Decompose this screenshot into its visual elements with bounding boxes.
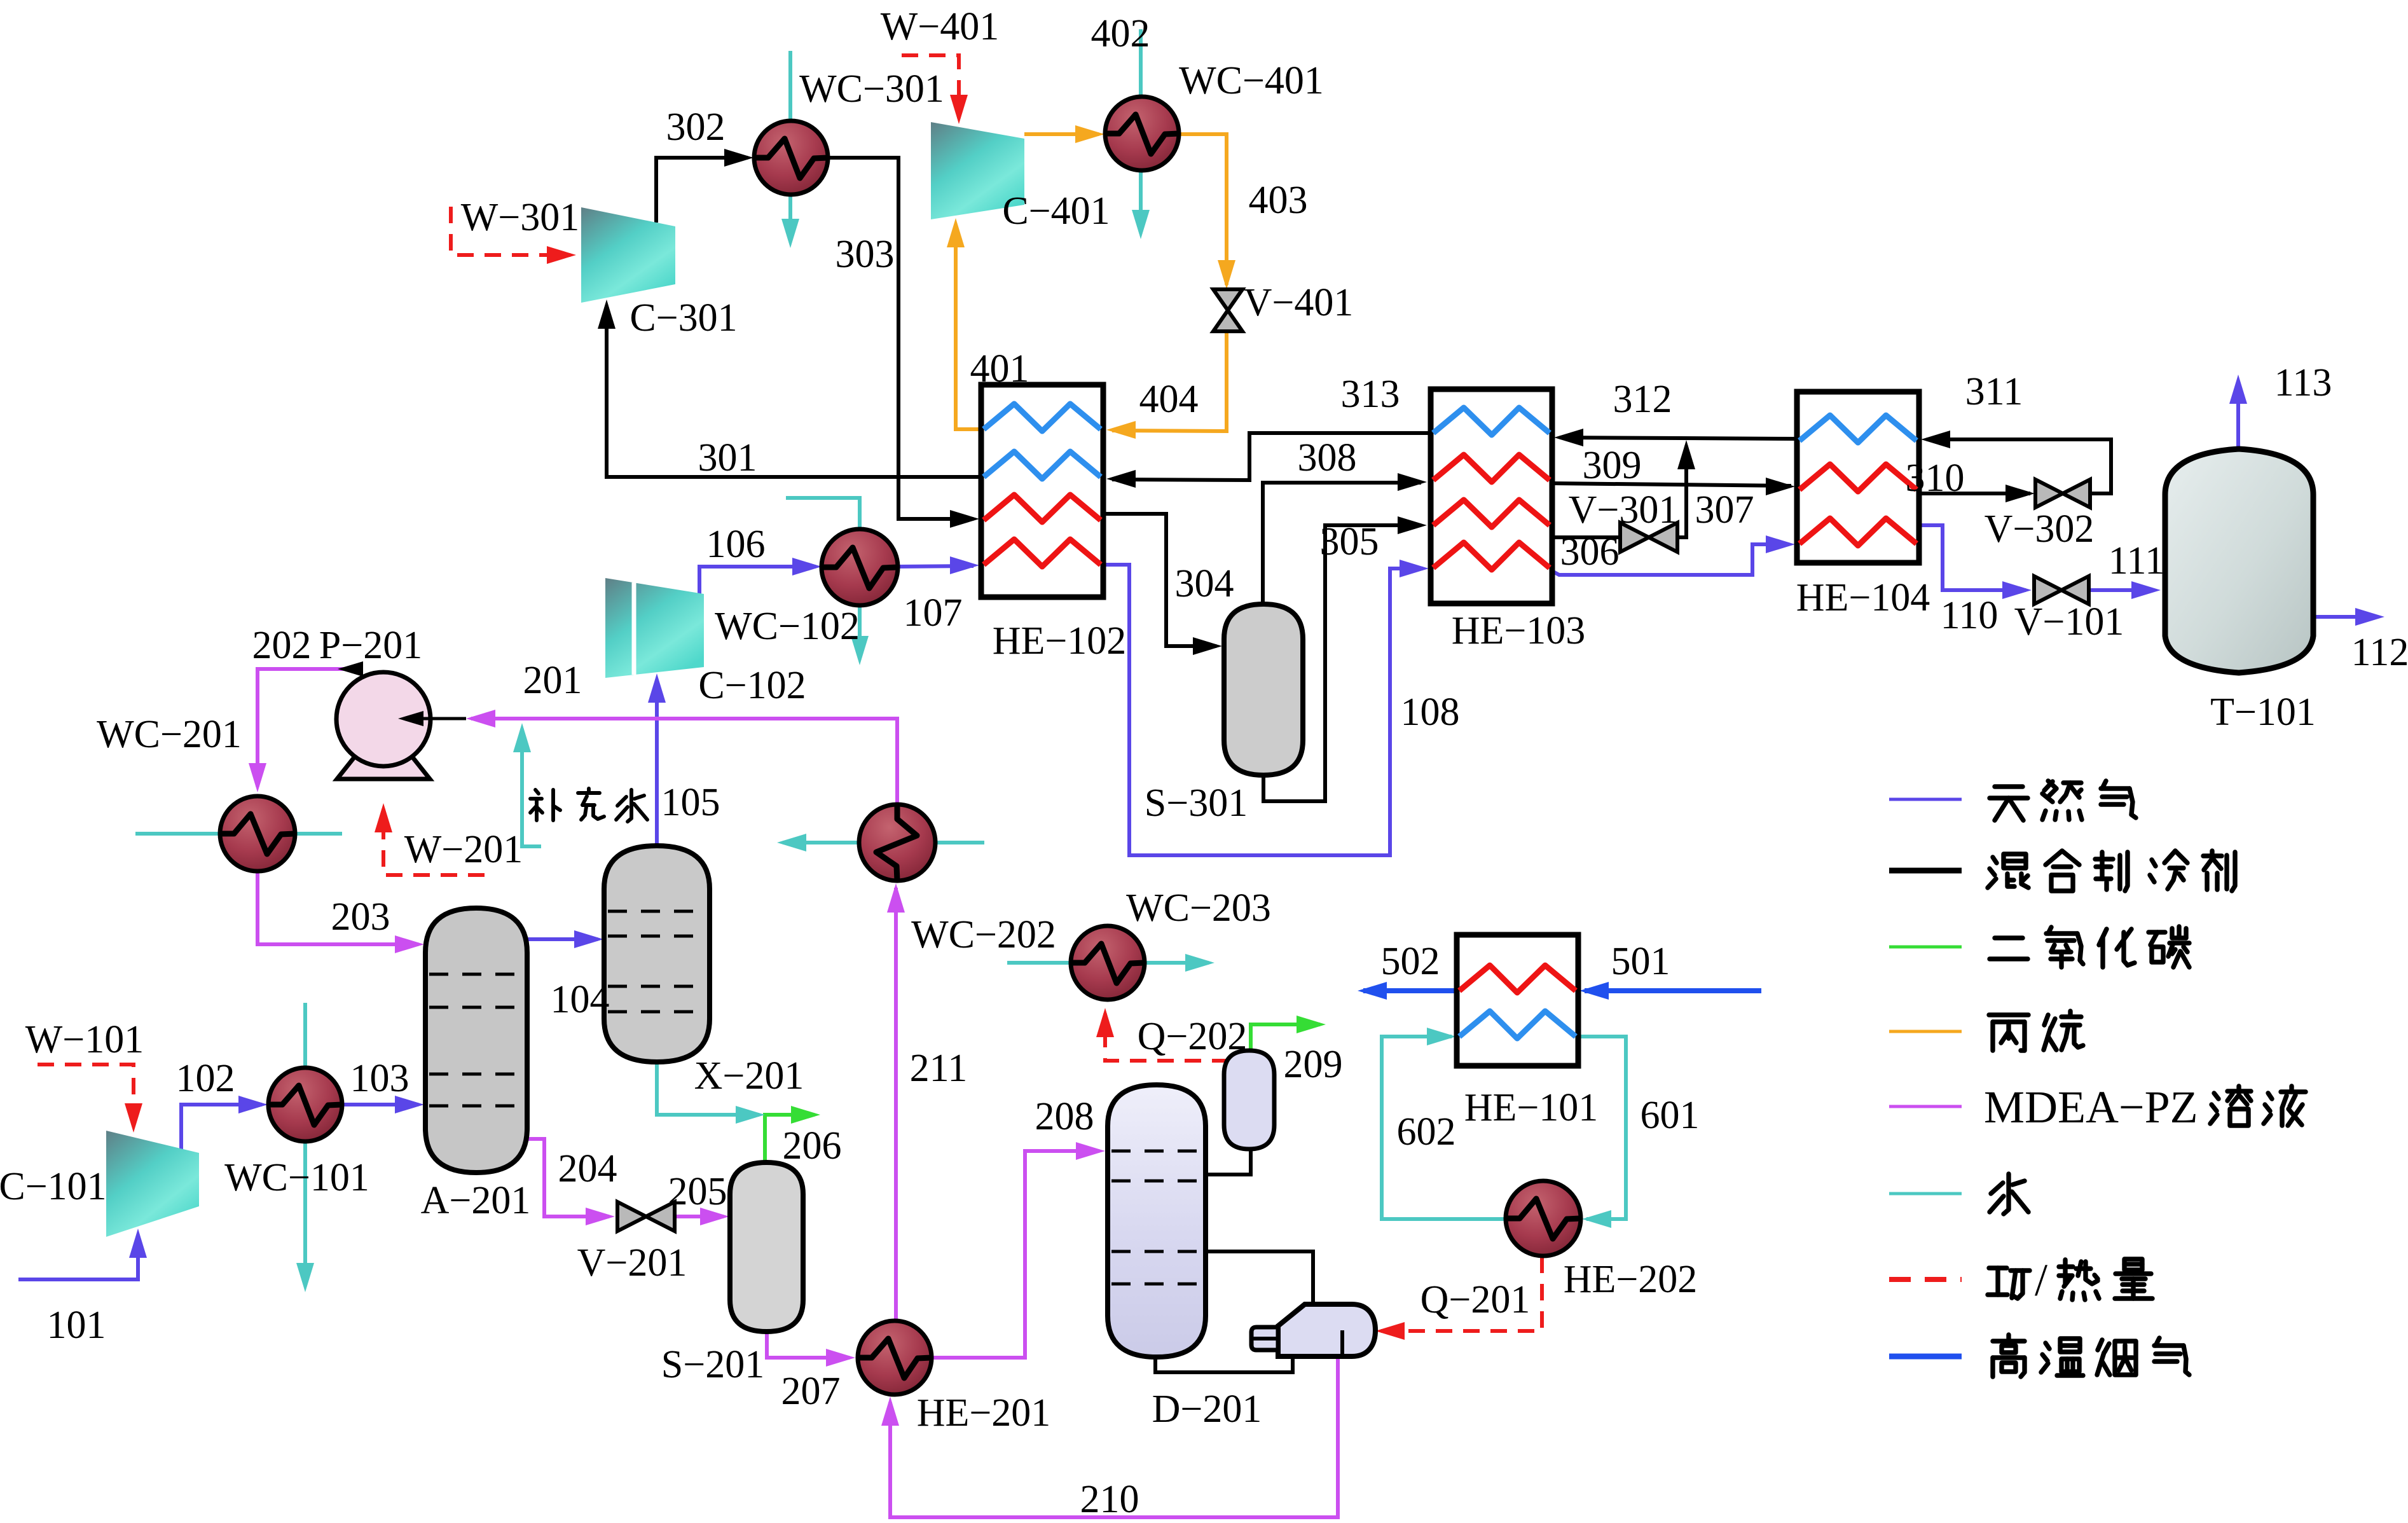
wire 311 V-302 to HE-104 blue row — [1927, 439, 2111, 493]
svg-text:D−201: D−201 — [1152, 1388, 1262, 1431]
legend natural gas line — [1889, 798, 1962, 801]
wire 109 HE-103 to HE-104 — [1551, 544, 1789, 575]
legend mixed refrigerant line — [1889, 868, 1962, 874]
arrow 113 — [2229, 375, 2247, 404]
wire water X-201 bottom — [657, 1062, 759, 1115]
wire 204 A-201 to V-201 — [525, 1139, 609, 1216]
svg-text:101: 101 — [47, 1304, 106, 1347]
svg-text:V−201: V−201 — [577, 1241, 687, 1285]
svg-text:311: 311 — [1965, 370, 2023, 413]
svg-text:WC−301: WC−301 — [799, 67, 944, 111]
svg-text:110: 110 — [1941, 594, 1999, 637]
arrow 201 magenta — [466, 710, 495, 727]
svg-text:204: 204 — [558, 1147, 617, 1190]
wire 102 C-101 to WC-101 — [181, 1105, 262, 1150]
svg-text:W−101: W−101 — [25, 1018, 144, 1061]
svg-text:210: 210 — [1080, 1478, 1139, 1521]
arrow 208 into D-201 — [1076, 1142, 1105, 1160]
arrow water WC-401 — [1132, 210, 1150, 239]
arrow 304 into S-301 — [1193, 637, 1222, 655]
svg-text:111: 111 — [2109, 539, 2164, 582]
arrow water WC-102 — [851, 636, 869, 665]
wire 110 HE-104 to V-101 — [1916, 525, 2026, 590]
arrow 307 joins 312 — [1677, 440, 1695, 469]
svg-text:402: 402 — [1091, 12, 1150, 55]
svg-text:601: 601 — [1641, 1094, 1700, 1137]
wire 112 T-101 liquid out — [2313, 615, 2378, 619]
valve V-302 — [2035, 479, 2063, 507]
arrow 202 at pump outlet — [338, 661, 363, 677]
arrow 103 into A-201 — [395, 1096, 424, 1113]
arrow 101 into C-101 — [129, 1229, 147, 1258]
svg-text:P−201: P−201 — [319, 624, 422, 667]
legend propane line — [1889, 1030, 1962, 1033]
wire D-201 vapor to reboiler — [1206, 1251, 1313, 1307]
cooler WC-401 — [1105, 97, 1179, 170]
arrow CO2 209 — [1297, 1016, 1326, 1033]
arrow 313 into HE-102 — [1106, 470, 1136, 488]
wire 209 drum to D-201 — [1206, 1149, 1251, 1175]
svg-text:207: 207 — [781, 1370, 841, 1413]
svg-text:WC−202: WC−202 — [911, 913, 1056, 956]
wire 210 D-201 reboiler to HE-201 — [890, 1356, 1338, 1517]
reflux drum 209 — [1224, 1051, 1274, 1149]
arrow 310 into V-302 — [2006, 485, 2035, 502]
svg-text:502: 502 — [1381, 940, 1440, 983]
arrow 201 into P-201 — [398, 711, 423, 726]
legend text 水 — [1990, 1174, 2028, 1214]
label makeup-water 补充水 — [530, 790, 560, 820]
svg-text:C−102: C−102 — [698, 664, 806, 707]
svg-text:W−201: W−201 — [404, 828, 523, 871]
wire Q-202 heat from 209 to WC-203 — [1105, 1014, 1228, 1061]
arrow 107 into HE-102 — [950, 556, 979, 574]
svg-text:313: 313 — [1341, 373, 1400, 416]
legend text 天然气 — [1990, 787, 2028, 820]
legend text 功/热量 — [1988, 1268, 2030, 1299]
svg-text:303: 303 — [836, 233, 895, 276]
svg-text:205: 205 — [668, 1170, 727, 1213]
svg-text:MDEA−PZ: MDEA−PZ — [1984, 1082, 2198, 1133]
svg-text:208: 208 — [1035, 1095, 1094, 1138]
arrow 302 into WC-301 — [724, 149, 753, 167]
arrow 110 into V-101 — [2002, 581, 2032, 599]
svg-text:WC−401: WC−401 — [1179, 59, 1324, 102]
svg-text:304: 304 — [1175, 562, 1234, 605]
wire 113 T-101 vapor out — [2236, 382, 2240, 448]
wire Q-202 CO2 vent from 209 — [1251, 1024, 1320, 1049]
svg-text:305: 305 — [1320, 520, 1379, 563]
wire 101 natural gas feed — [18, 1235, 138, 1279]
legend water line — [1889, 1192, 1962, 1196]
svg-text:308: 308 — [1298, 436, 1357, 479]
arrow 112 — [2355, 608, 2384, 626]
arrow W-101 — [125, 1103, 142, 1133]
valve V-201 — [617, 1202, 646, 1231]
wire cooling water WC-401 — [1139, 29, 1143, 233]
arrow 206 — [791, 1106, 820, 1124]
svg-text:602: 602 — [1397, 1110, 1456, 1154]
svg-text:HE−103: HE−103 — [1452, 609, 1586, 652]
compressor C-301 — [581, 207, 675, 303]
svg-text:V−301: V−301 — [1569, 488, 1679, 532]
legend text 混合制冷剂 — [1988, 854, 2028, 888]
heat exchanger HE-103 — [1431, 389, 1552, 603]
arrow 102 into WC-101 — [238, 1096, 268, 1113]
arrow 111 into T-101 — [2131, 581, 2161, 599]
svg-text:S−201: S−201 — [661, 1343, 764, 1386]
svg-text:203: 203 — [331, 895, 390, 939]
arrow Q-201 — [1375, 1322, 1405, 1340]
wire 205 V-201 to S-201 — [675, 1215, 724, 1218]
wire 106 C-102 to WC-102 — [699, 567, 816, 594]
arrow water X-201 — [736, 1106, 765, 1124]
wire W-201 work to P-201 — [383, 809, 485, 875]
heater HE-201 — [858, 1321, 932, 1395]
svg-text:202: 202 — [252, 624, 312, 667]
svg-text:113: 113 — [2274, 361, 2332, 404]
arrow water WC-101 — [296, 1263, 314, 1292]
arrow 210 into HE-201 — [881, 1396, 899, 1426]
LNG tank T-101 — [2165, 449, 2313, 673]
wire 203 WC-201 to A-201 — [258, 871, 418, 944]
arrow 104 into X-201 — [574, 930, 603, 948]
legend work/heat line — [1889, 1277, 1962, 1282]
cooler WC-102 — [822, 529, 898, 605]
arrow 312 into HE-103 — [1554, 429, 1583, 446]
wire 201 black tail into pump — [403, 717, 466, 720]
svg-text:301: 301 — [698, 436, 757, 479]
svg-text:310: 310 — [1906, 457, 1965, 500]
wire 601 HE-101 to HE-202 — [1578, 1037, 1626, 1219]
arrow 308 into HE-103 — [1398, 473, 1427, 491]
legend flue gas line — [1889, 1354, 1962, 1360]
wire 402 C-401 to WC-401 — [1024, 132, 1099, 136]
svg-text:/: / — [2035, 1255, 2047, 1306]
svg-text:W−301: W−301 — [461, 196, 579, 239]
cooler WC-101 — [268, 1068, 342, 1141]
wire W-301 work to C-301 — [451, 207, 570, 255]
cooler WC-202 — [859, 804, 935, 881]
svg-text:Q−202: Q−202 — [1138, 1015, 1248, 1058]
wire D-201 bottom to reboiler — [1155, 1356, 1293, 1372]
wire cooling water WC-101 — [303, 1003, 307, 1286]
svg-text:WC−102: WC−102 — [715, 605, 860, 648]
svg-text:106: 106 — [706, 523, 766, 566]
svg-text:HE−202: HE−202 — [1564, 1258, 1698, 1301]
svg-text:309: 309 — [1583, 444, 1642, 487]
wire 108 HE-102 to HE-103 — [1102, 565, 1423, 855]
wire 310 HE-104 to V-302 — [1919, 492, 2030, 495]
wire 104 A-201 to X-201 — [527, 937, 598, 941]
svg-text:C−301: C−301 — [630, 296, 737, 340]
wire 403 WC-401 to V-401 — [1179, 134, 1227, 285]
svg-text:WC−101: WC−101 — [224, 1156, 369, 1199]
legend text 二氧化碳 — [1990, 938, 2028, 959]
arrow Q-202 — [1096, 1008, 1114, 1037]
arrow water WC-203 — [1185, 954, 1214, 972]
svg-text:102: 102 — [176, 1057, 235, 1100]
arrow 105 into C-102 — [648, 673, 666, 703]
arrow water WC-202 — [777, 834, 806, 851]
arrow 309 into HE-104 — [1766, 478, 1795, 495]
dryer X-201 — [604, 846, 710, 1062]
wire 202 P-201 to WC-201 — [258, 669, 356, 787]
heater HE-202 — [1506, 1181, 1581, 1256]
legend text 丙烷 — [1989, 1015, 2028, 1051]
arrow 602 into HE-101 — [1427, 1028, 1456, 1045]
cooler WC-301 — [754, 121, 828, 195]
legend CO2 line — [1889, 946, 1962, 949]
svg-text:302: 302 — [666, 106, 726, 149]
wire 306 HE-103 to V-301 — [1552, 535, 1621, 539]
wire 207 S-201 to HE-201 — [767, 1332, 850, 1358]
arrow 301 into C-301 — [598, 300, 616, 329]
arrow water WC-301 — [781, 219, 799, 248]
absorber A-201 — [425, 908, 527, 1173]
wire cooling water WC-203 — [1007, 961, 1209, 965]
pump P-201 — [337, 751, 430, 779]
wire cooling water WC-301 — [788, 51, 792, 242]
arrow 303 into HE-102 — [950, 510, 979, 528]
svg-text:A−201: A−201 — [421, 1179, 531, 1222]
svg-text:201: 201 — [523, 659, 582, 702]
wire makeup water — [522, 729, 541, 846]
wire 105 X-201 to C-102 — [655, 680, 659, 846]
svg-text:V−401: V−401 — [1244, 281, 1354, 324]
wire 305 S-301 bottom to HE-103 — [1263, 525, 1421, 801]
svg-text:HE−201: HE−201 — [917, 1391, 1051, 1435]
svg-text:S−301: S−301 — [1145, 782, 1248, 825]
reboiler furnace of D-201 — [1278, 1304, 1375, 1356]
svg-text:501: 501 — [1611, 940, 1670, 983]
wire W-101 work to C-101 — [38, 1065, 134, 1127]
arrow 106 into WC-102 — [792, 558, 822, 575]
svg-text:211: 211 — [910, 1047, 968, 1090]
svg-text:WC−201: WC−201 — [97, 713, 242, 756]
wire 303 WC-301 to HE-102 — [828, 158, 974, 519]
valve V-401 — [1213, 289, 1242, 310]
svg-text:104: 104 — [551, 978, 610, 1021]
arrow 211 into WC-202 — [887, 883, 905, 913]
wire 103 WC-101 to A-201 — [341, 1103, 418, 1106]
arrow W-201 — [375, 803, 392, 832]
wire 308 S-301 top to HE-103 — [1263, 483, 1421, 604]
wire 107 WC-102 to HE-102 — [898, 566, 974, 567]
wire 301 HE-102 to C-301 — [607, 307, 981, 477]
svg-text:HE−102: HE−102 — [993, 619, 1127, 663]
svg-text:107: 107 — [904, 591, 963, 635]
svg-text:Q−201: Q−201 — [1421, 1278, 1531, 1321]
svg-text:C−401: C−401 — [1002, 190, 1110, 233]
stripper D-201 — [1108, 1085, 1206, 1357]
svg-text:HE−101: HE−101 — [1464, 1086, 1599, 1129]
svg-text:306: 306 — [1560, 530, 1620, 574]
svg-text:X−201: X−201 — [694, 1054, 804, 1098]
wire 309 HE-103 to HE-104 — [1552, 483, 1791, 486]
arrow 502 — [1358, 982, 1387, 1000]
arrow 401 into C-401 — [947, 218, 965, 247]
wire 312 HE-104 to HE-103 — [1560, 438, 1797, 439]
compressor C-401 — [931, 122, 1024, 219]
valve V-101 — [2034, 576, 2061, 604]
svg-text:C−101: C−101 — [0, 1165, 107, 1208]
heat exchanger HE-104 — [1797, 392, 1919, 563]
arrow makeup water joins 201 — [513, 723, 531, 752]
arrow 402 into WC-401 — [1075, 125, 1104, 143]
wire 307 V-301 up to line 312 — [1677, 446, 1686, 537]
svg-text:108: 108 — [1401, 691, 1460, 734]
arrow 404 into HE-102 — [1106, 421, 1136, 439]
arrow 108 into HE-103 — [1400, 560, 1429, 577]
svg-text:105: 105 — [661, 781, 720, 824]
svg-text:403: 403 — [1249, 179, 1308, 222]
wire 502 flue gas out of HE-101 — [1363, 988, 1457, 993]
heat exchanger HE-101 — [1457, 935, 1578, 1066]
wire cooling water WC-201 — [135, 832, 342, 836]
arrow 601 into HE-202 — [1582, 1210, 1611, 1228]
wire Q-201 heat to reboiler — [1381, 1257, 1542, 1331]
compressor C-102 (two-stage) — [605, 578, 704, 678]
wire 201 WC-202 to P-201 — [471, 719, 897, 803]
svg-text:V−302: V−302 — [1985, 507, 2095, 551]
svg-text:103: 103 — [350, 1057, 409, 1100]
arrow 202 into WC-201 — [249, 763, 266, 792]
arrow 311 into HE-104 — [1921, 431, 1950, 448]
svg-text:404: 404 — [1139, 378, 1199, 421]
svg-text:401: 401 — [970, 347, 1029, 390]
valve V-301 — [1620, 523, 1649, 552]
wire 211 HE-201 to WC-202 — [894, 888, 898, 1320]
wire 302 C-301 to WC-301 — [656, 158, 748, 223]
svg-text:307: 307 — [1695, 488, 1754, 532]
svg-text:WC−203: WC−203 — [1126, 886, 1271, 930]
wire 304 HE-102 to S-301 — [1103, 514, 1216, 646]
arrow W-301 — [547, 246, 576, 264]
wire cooling water WC-102 — [786, 498, 860, 659]
wire 313 HE-103 to HE-102 — [1112, 433, 1431, 480]
arrow 109 into HE-104 — [1766, 535, 1795, 553]
wire 404 V-401 to HE-102 — [1112, 333, 1227, 431]
arrow 403 into V-401 — [1218, 260, 1235, 289]
svg-text:206: 206 — [783, 1124, 842, 1168]
wire 111 V-101 to T-101 — [2090, 588, 2154, 592]
arrow 204 into V-201 — [586, 1208, 615, 1225]
arrow 205 into S-201 — [700, 1208, 729, 1225]
heat exchanger HE-102 — [981, 385, 1103, 597]
separator S-201 — [730, 1162, 803, 1332]
svg-text:312: 312 — [1613, 378, 1672, 421]
svg-text:V−101: V−101 — [2014, 600, 2124, 644]
wire 602 HE-202 to HE-101 — [1382, 1037, 1506, 1219]
svg-text:112: 112 — [2351, 631, 2408, 674]
compressor C-101 — [106, 1131, 199, 1237]
cooler WC-201 — [220, 796, 295, 871]
wire cooling water WC-202 — [783, 841, 984, 844]
arrow 305 into HE-103 — [1398, 516, 1427, 534]
svg-text:W−401: W−401 — [881, 5, 999, 48]
svg-text:209: 209 — [1284, 1043, 1343, 1086]
wire 206 S-201 CO2 vent — [765, 1115, 815, 1161]
arrow 501 into HE-101 — [1579, 982, 1609, 1000]
separator S-301 — [1224, 604, 1303, 775]
wire 208 HE-201 to D-201 — [932, 1151, 1099, 1358]
arrow W-401 — [950, 95, 968, 124]
cooler WC-203 — [1071, 926, 1145, 1000]
arrow 207 into HE-201 — [826, 1349, 855, 1367]
wire 401 HE-102 to C-401 — [956, 225, 981, 429]
arrow 203 into A-201 — [395, 935, 424, 953]
svg-text:HE−104: HE−104 — [1796, 576, 1930, 619]
wire W-401 work to C-401 — [902, 55, 959, 118]
legend text 高温烟气 — [1993, 1335, 2025, 1377]
svg-text:T−101: T−101 — [2210, 691, 2316, 734]
legend MDEA-PZ line — [1889, 1105, 1962, 1108]
wire 501 flue gas into HE-101 — [1585, 988, 1761, 993]
